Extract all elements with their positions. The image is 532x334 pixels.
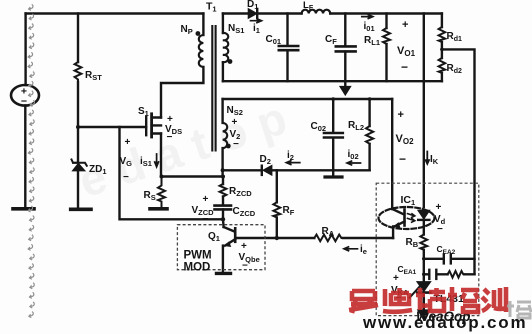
svg-text:+: + (398, 109, 404, 121)
node NS2 bottom (221, 168, 225, 172)
faint background watermark (73, 91, 293, 207)
svg-text:+: + (402, 19, 408, 31)
svg-text:−: − (167, 132, 173, 143)
resistor RB (420, 235, 427, 250)
opto phototransistor (392, 209, 403, 214)
junction nodes (76, 31, 444, 276)
i1 arrow (251, 19, 262, 23)
diode D1 (223, 12, 249, 14)
wire CZCD to Q1 (222, 209, 225, 227)
winding dot NS2 (226, 144, 231, 149)
i2 arrow (286, 161, 300, 165)
resistor RL2 (368, 99, 370, 170)
svg-text:MOD: MOD (184, 262, 211, 274)
wire output2 top rail (223, 98, 393, 100)
tl431 (417, 282, 430, 291)
watermark hook column (28, 4, 35, 317)
wire VO1 right / IK line (423, 14, 425, 208)
wire VO2 right / opto collector (391, 99, 393, 209)
inductor LF (302, 10, 331, 14)
svg-text:+: + (232, 117, 238, 128)
wire comp branch1 (424, 258, 475, 260)
winding dot NP (196, 31, 201, 36)
node RF base (275, 236, 279, 240)
capacitor C02 (332, 99, 334, 170)
winding NS1 (222, 14, 224, 34)
node source junction (160, 175, 164, 179)
winding dot NS1 (228, 59, 233, 64)
wire drain (161, 67, 203, 118)
iS1 arrow (155, 154, 159, 167)
ground arrow (TL431) (418, 310, 430, 320)
node gate junction (76, 125, 80, 129)
mosfet S1 channel bar (150, 114, 153, 137)
wire RST branch (77, 14, 79, 128)
i01 arrow (362, 15, 373, 19)
ac source (11, 85, 39, 106)
svg-text:−: − (242, 261, 248, 272)
svg-text:−: − (203, 214, 209, 225)
ground (ZD1) (71, 208, 91, 212)
ic1 dashed box (376, 183, 479, 315)
char xun (482, 287, 506, 312)
wire top rail D1 to LF (257, 12, 301, 14)
resistor comp branch2 (448, 271, 465, 278)
resistor RST (75, 62, 82, 82)
svg-text:−: − (437, 224, 443, 235)
svg-text:+: + (241, 241, 247, 252)
char di (383, 288, 412, 312)
ground (left rail) (13, 207, 34, 211)
svg-text:−: − (21, 96, 27, 108)
ac source plus minus (21, 86, 27, 108)
wire left rail upper (24, 14, 26, 86)
svg-text:+: + (203, 194, 209, 205)
char tuo (416, 288, 445, 311)
watermark gray chars right (507, 301, 531, 318)
i02 arrow (347, 161, 361, 165)
svg-text:−: − (233, 139, 239, 150)
mosfet S1 stubs (152, 118, 161, 134)
capacitor CEA2 (443, 254, 445, 263)
ground arrow (CF) (344, 81, 346, 87)
wire top rail LF to Rd (330, 12, 442, 14)
wire gate (78, 126, 146, 128)
svg-text:www.edatop.com: www.edatop.com (362, 313, 527, 332)
zener ZD1 (72, 160, 87, 166)
winding NS2 (221, 99, 223, 123)
wire output2 bottom (277, 169, 370, 171)
resistor RS (158, 177, 165, 208)
capacitor CF (344, 14, 346, 82)
wire Q1 base / RA run (235, 237, 393, 239)
optocoupler IC1 ellipse (379, 207, 435, 229)
svg-text:−: − (399, 152, 406, 166)
winding NP (202, 14, 204, 36)
label PWM MOD (184, 250, 212, 274)
resistor RF (276, 170, 278, 238)
capacitor CEA1 (428, 270, 430, 279)
ground (C02) (332, 170, 334, 176)
transformer T1 core (212, 26, 215, 151)
svg-text:D1: D1 (247, 0, 258, 11)
svg-text:+: + (393, 273, 399, 284)
watermark red chinese (349, 287, 506, 313)
diode D2 (223, 169, 262, 171)
svg-text:PWM: PWM (184, 250, 212, 262)
ground (RS) (150, 207, 167, 211)
wire left rail lower (24, 106, 26, 208)
wire VG branch (120, 127, 224, 219)
node divider tap (440, 48, 444, 52)
opto light arrows (408, 214, 415, 218)
wire divider tap (442, 49, 475, 274)
node comp branch1 (422, 257, 426, 261)
ground (Q1) (217, 272, 231, 275)
wire source (161, 134, 223, 177)
wire ZD1 branch (77, 127, 79, 208)
svg-text:−: − (401, 60, 408, 74)
node rail2 RL2 (368, 97, 372, 101)
led Vd (418, 210, 429, 218)
zener ZD1 triangle (73, 164, 85, 171)
ie arrow (344, 247, 358, 251)
IK arrow (426, 152, 428, 161)
resistor RZCD (222, 177, 224, 205)
capacitor C01 (286, 14, 288, 82)
transistor Q1 (224, 227, 235, 231)
node CZCD bottom (221, 217, 225, 221)
wire top rail left (26, 12, 204, 14)
node rail2 C02 (331, 97, 335, 101)
svg-text:−: − (123, 172, 129, 183)
resistor RL1 (385, 14, 387, 82)
capacitor CZCD (215, 204, 232, 207)
resistor Rd2 (441, 49, 443, 81)
mosfet S1 gate bar (145, 117, 147, 136)
svg-text:+: + (436, 202, 442, 213)
resistor RA (314, 235, 343, 242)
resistor Rd1 (441, 14, 443, 50)
node comp branch2 (422, 273, 426, 277)
wire comp branch2 (424, 273, 475, 275)
char yi (349, 291, 378, 313)
pwm mod box (177, 225, 265, 270)
svg-text:+: + (125, 137, 131, 148)
char pei (448, 287, 479, 312)
wire output1 bottom rail (223, 80, 442, 82)
